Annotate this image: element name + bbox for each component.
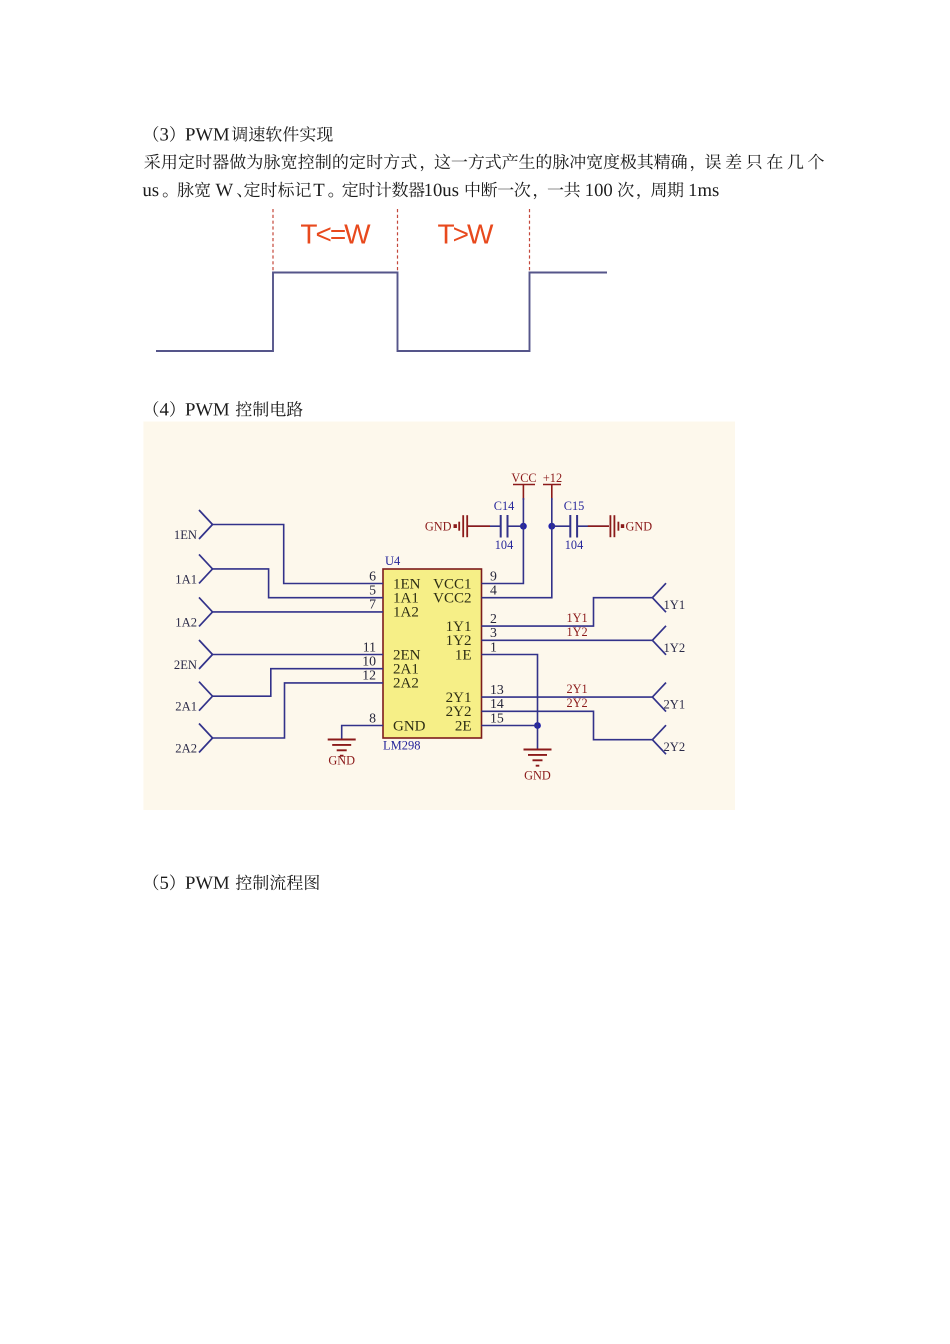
svg-text:5: 5 xyxy=(369,583,376,598)
svg-text:2Y1: 2Y1 xyxy=(567,682,588,696)
svg-text:LM298: LM298 xyxy=(383,739,421,753)
svg-text:7: 7 xyxy=(369,597,376,612)
svg-text:1Y1: 1Y1 xyxy=(664,598,686,612)
svg-text:GND: GND xyxy=(626,520,653,534)
svg-text:2A2: 2A2 xyxy=(175,742,197,756)
svg-text:T<=W: T<=W xyxy=(300,219,371,250)
svg-text:14: 14 xyxy=(490,696,504,711)
svg-text:3: 3 xyxy=(490,625,497,640)
svg-text:2: 2 xyxy=(490,611,497,626)
svg-text:VCC2: VCC2 xyxy=(433,591,471,607)
svg-text:10: 10 xyxy=(362,654,376,669)
svg-text:1E: 1E xyxy=(455,647,472,663)
svg-text:U4: U4 xyxy=(385,554,401,568)
svg-text:1Y1: 1Y1 xyxy=(567,611,588,625)
svg-text:2E: 2E xyxy=(455,718,472,734)
svg-text:15: 15 xyxy=(490,710,504,725)
svg-text:1: 1 xyxy=(490,639,497,654)
svg-text:1EN: 1EN xyxy=(174,528,197,542)
svg-text:13: 13 xyxy=(490,682,504,697)
svg-text:9: 9 xyxy=(490,568,497,583)
svg-text:GND: GND xyxy=(328,754,355,768)
svg-text:12: 12 xyxy=(362,668,376,683)
svg-text:1Y2: 1Y2 xyxy=(567,625,588,639)
svg-text:11: 11 xyxy=(363,639,376,654)
svg-text:1A2: 1A2 xyxy=(393,605,419,621)
svg-text:T>W: T>W xyxy=(438,219,494,250)
svg-text:2A1: 2A1 xyxy=(175,700,197,714)
svg-text:1Y2: 1Y2 xyxy=(664,641,686,655)
svg-text:+12: +12 xyxy=(543,471,562,485)
svg-text:2Y2: 2Y2 xyxy=(567,696,588,710)
svg-text:6: 6 xyxy=(369,568,376,583)
svg-text:2Y2: 2Y2 xyxy=(664,740,686,754)
svg-text:1A1: 1A1 xyxy=(175,572,197,586)
svg-text:GND: GND xyxy=(524,769,551,783)
svg-text:2EN: 2EN xyxy=(174,658,197,672)
svg-text:2A2: 2A2 xyxy=(393,676,419,692)
svg-text:104: 104 xyxy=(495,538,513,552)
svg-text:C14: C14 xyxy=(494,499,515,513)
svg-text:8: 8 xyxy=(369,710,376,725)
svg-text:2Y1: 2Y1 xyxy=(664,698,686,712)
svg-text:C15: C15 xyxy=(564,499,585,513)
svg-text:GND: GND xyxy=(393,718,426,734)
svg-text:VCC: VCC xyxy=(511,471,536,485)
svg-text:4: 4 xyxy=(490,583,497,598)
svg-text:GND: GND xyxy=(425,520,452,534)
svg-text:1A2: 1A2 xyxy=(175,615,197,629)
svg-text:104: 104 xyxy=(565,538,583,552)
